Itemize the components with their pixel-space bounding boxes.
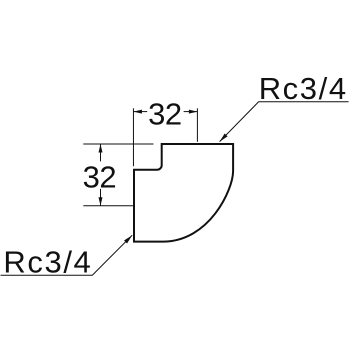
D1 left arrowhead xyxy=(133,110,142,114)
svg-text:Rc3/4: Rc3/4 xyxy=(3,245,92,280)
leader line L1 (top right) xyxy=(220,102,349,142)
extension line E2 (top port centerline, vertical) xyxy=(196,108,198,142)
D2 bottom arrowhead xyxy=(99,197,103,206)
D2 top arrowhead xyxy=(99,144,103,153)
D1 right arrowhead xyxy=(189,110,198,114)
extension line E1 (left face, vertical) xyxy=(132,108,134,166)
svg-text:Rc3/4: Rc3/4 xyxy=(259,71,348,106)
extension line E3 (top face, horizontal) xyxy=(83,143,153,145)
extension line E4 (left port centerline, horizontal) xyxy=(83,205,134,207)
svg-text:32: 32 xyxy=(83,159,116,194)
L2 arrowhead xyxy=(124,235,132,243)
elbow fitting body outline xyxy=(134,144,233,242)
L1 arrowhead xyxy=(220,133,228,141)
dimension line D1 (top, horizontal 32) xyxy=(133,111,147,113)
svg-text:32: 32 xyxy=(148,97,181,132)
dimension line D2 (left, vertical 32) xyxy=(100,144,102,161)
leader line L2 (bottom left) xyxy=(1,235,133,275)
